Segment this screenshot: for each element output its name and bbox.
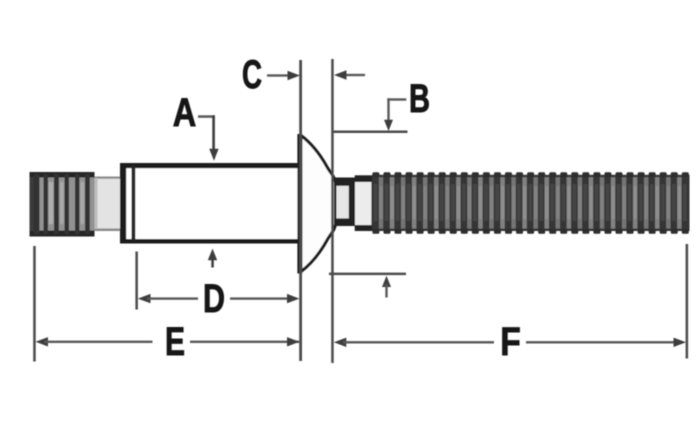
svg-text:F: F [500,320,521,364]
pintail smooth section [95,177,121,232]
dimension C left arrow [267,71,300,80]
dimension A top arrow [209,149,218,161]
dimension B bottom arrow [382,276,391,298]
thread ridges [372,172,688,234]
grip line 2 [331,59,334,363]
neck section 1 [334,178,355,227]
svg-text:E: E [165,320,185,364]
svg-text:A: A [173,91,197,135]
rivet head flat face [297,134,302,274]
grip line 1 [299,60,302,361]
dimension A leader [198,115,215,149]
dimension E left extension line [33,246,36,362]
dimension B leader [387,98,406,120]
rivet head dome [301,136,336,272]
svg-text:D: D [203,277,225,321]
svg-text:B: B [409,77,430,121]
dimension A bottom arrow [208,249,217,268]
dimension F right extension line [686,244,689,359]
dimension D line and arrows [138,294,300,303]
dimension E line and arrows [36,337,300,346]
pintail serrated section [30,172,95,237]
threaded shank [372,175,690,231]
dimension F line and arrows [334,338,686,347]
dimension B head top tangent line [332,131,408,134]
body cylinder [120,163,301,244]
dimension C right arrow [334,70,365,79]
svg-text:C: C [242,53,262,97]
neck section 2 [355,175,376,231]
dimension D left extension line [135,252,138,310]
dimension B top arrow [384,120,393,131]
dimension B head bottom tangent line [329,273,406,276]
